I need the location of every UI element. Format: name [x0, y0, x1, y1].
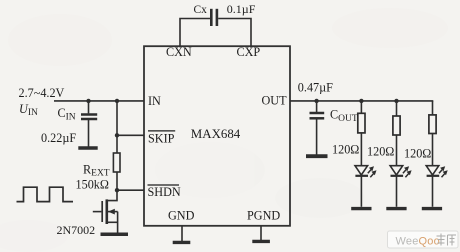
svg-text:OUT: OUT	[262, 94, 288, 108]
resistor R1 120 ohm	[358, 113, 365, 133]
wire GND pin to ground	[181, 226, 183, 241]
svg-text:IN: IN	[148, 94, 161, 108]
junction LED branch 2	[394, 99, 398, 103]
LED D2	[390, 166, 403, 175]
wire CXN pin to Cx	[180, 19, 210, 47]
svg-text:120Ω: 120Ω	[332, 143, 359, 157]
wire R2 to LED D2	[396, 135, 398, 165]
ground (COUT)	[306, 154, 328, 158]
junction at SKIP	[115, 133, 119, 137]
svg-text:CXP: CXP	[237, 45, 261, 59]
ground (Q1 source)	[101, 232, 129, 236]
svg-text:Cx: Cx	[194, 4, 208, 16]
Q1 body arrow	[108, 211, 118, 213]
watermark WeeQoo	[388, 231, 459, 248]
ground (D2)	[386, 207, 406, 210]
ground (D3)	[422, 207, 442, 210]
svg-text:2.7~4.2V: 2.7~4.2V	[19, 86, 65, 100]
transistor Q1 2N7002 drain lead	[108, 190, 117, 200]
svg-text:120Ω: 120Ω	[404, 147, 431, 161]
junction at CIN	[86, 99, 90, 103]
LED D1	[355, 166, 368, 175]
svg-text:0.22µF: 0.22µF	[41, 131, 76, 145]
wire R3 to LED D3	[432, 134, 434, 166]
resistor R3 120 ohm	[429, 115, 436, 134]
svg-text:2N7002: 2N7002	[57, 223, 96, 237]
svg-text:120Ω: 120Ω	[367, 145, 394, 159]
wire LED branch 1 upper	[360, 101, 362, 113]
wire LED branch 2 upper	[396, 101, 398, 116]
resistor R2 120 ohm	[393, 116, 400, 135]
junction at SHDN	[115, 188, 119, 192]
wire resistor to SHDN junction	[116, 172, 118, 190]
Q1 source lead	[108, 221, 118, 223]
wire LED branch 3 upper	[432, 101, 434, 115]
wire to SHDN pin	[117, 189, 144, 191]
wire D3 to ground	[432, 176, 434, 207]
wire Q1 source/body to ground	[117, 212, 119, 233]
wire Cx to CXP pin	[218, 19, 251, 47]
svg-text:MAX684: MAX684	[191, 127, 241, 141]
wire input rail to IN pin	[54, 100, 144, 102]
capacitor CIN	[88, 101, 90, 114]
svg-text:PGND: PGND	[247, 209, 280, 223]
Q1 channel bar	[106, 199, 109, 224]
svg-text:WeeQoo: WeeQoo	[396, 236, 440, 248]
capacitor Cx	[210, 9, 213, 26]
wire to SKIP pin	[117, 134, 144, 136]
square-wave gate drive signal	[17, 187, 74, 201]
IC U1 MAX684 body	[144, 46, 290, 226]
junction LED branch 1	[359, 99, 363, 103]
svg-text:SKIP: SKIP	[148, 131, 175, 145]
junction at REXT branch	[115, 99, 119, 103]
ground (CIN)	[78, 146, 97, 150]
wire PGND pin to ground	[260, 226, 262, 240]
wire D1 to ground	[360, 176, 362, 207]
ground (PGND pin)	[252, 240, 270, 243]
resistor REXT	[113, 153, 120, 172]
svg-text:SHDN: SHDN	[148, 185, 181, 199]
Q1 gate bar	[101, 201, 103, 222]
svg-text:GND: GND	[168, 209, 195, 223]
svg-text:150kΩ: 150kΩ	[76, 177, 109, 191]
capacitor COUT	[316, 101, 318, 112]
wire D2 to ground	[396, 176, 398, 207]
Q1 gate lead	[93, 211, 102, 213]
ground (D1)	[351, 207, 371, 210]
svg-text:0.1µF: 0.1µF	[227, 2, 256, 16]
svg-text:0.47µF: 0.47µF	[298, 80, 333, 94]
LED D3	[426, 166, 439, 175]
wire R1 to LED D1	[360, 133, 362, 165]
junction at COUT	[314, 99, 318, 103]
wire REXT branch vertical	[116, 101, 118, 153]
ground (GND pin)	[173, 241, 191, 244]
wire OUT rail	[290, 100, 433, 102]
svg-text:CXN: CXN	[166, 45, 192, 59]
